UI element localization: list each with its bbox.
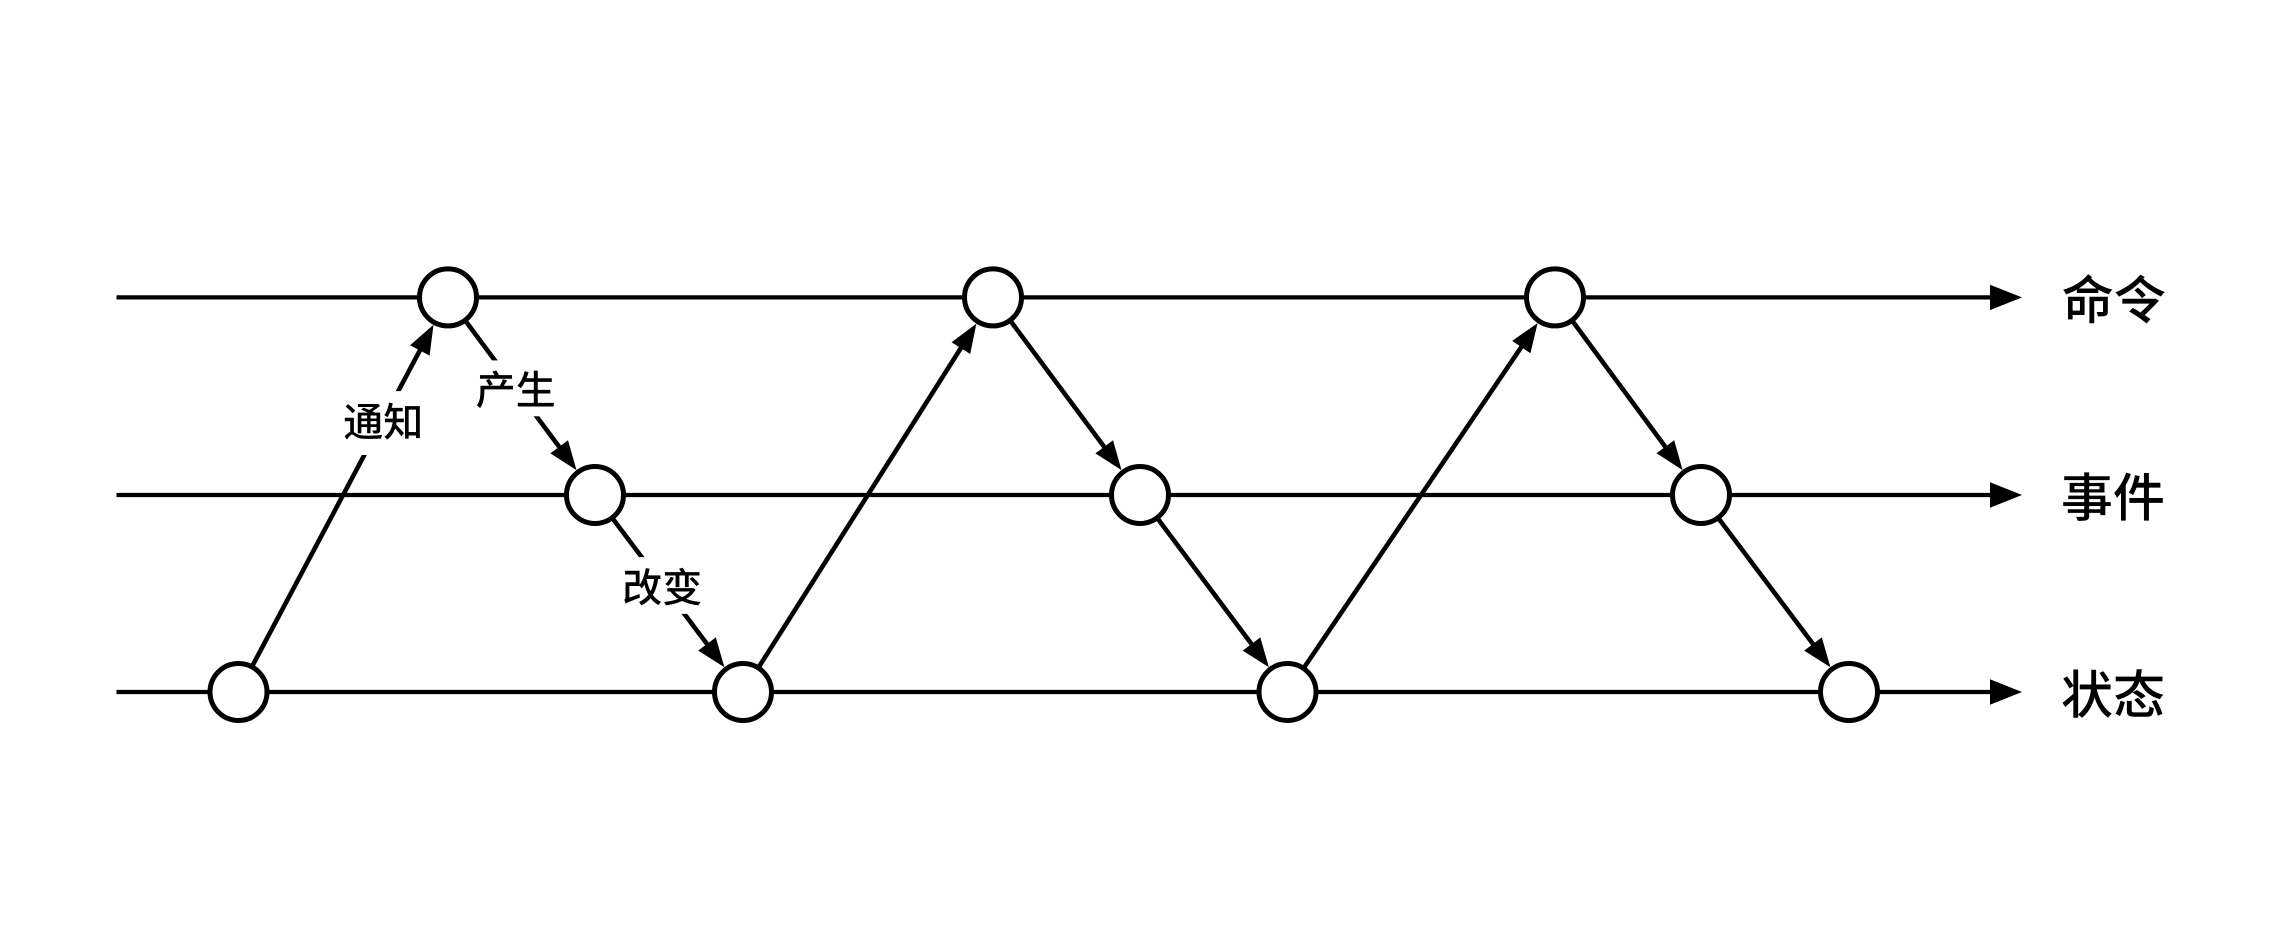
- node event E1: [567, 467, 624, 524]
- wire 改变 arrow E1-S2: [595, 495, 709, 646]
- node command C2: [965, 269, 1022, 326]
- node event E3: [1673, 467, 1730, 524]
- wire arrow S3-C3: [1288, 345, 1524, 692]
- arrowhead 通知 arrow S1-C1: [410, 325, 433, 356]
- arrowhead timeline 状态: [1990, 679, 2022, 704]
- arrowhead arrow S2-C2: [952, 324, 977, 354]
- wire 通知 arrow S1-C1: [239, 348, 422, 692]
- wire arrow C3-E3: [1555, 297, 1667, 449]
- arrowhead arrow E2-S3: [1243, 637, 1269, 667]
- wire arrow C2-E2: [993, 297, 1106, 449]
- node command C1: [420, 269, 477, 326]
- arrowhead arrow S3-C3: [1512, 323, 1537, 353]
- label 通知: [337, 391, 428, 455]
- node state S2: [715, 664, 772, 721]
- node event E2: [1112, 467, 1169, 524]
- arrowhead arrow C2-E2: [1095, 440, 1121, 470]
- label timeline 命令: [2063, 274, 2164, 323]
- label 产生: [470, 360, 560, 416]
- node command C3: [1527, 269, 1584, 326]
- node state S1: [210, 664, 267, 721]
- wire 产生 arrow C1-E1: [448, 297, 561, 449]
- arrowhead timeline 命令: [1990, 285, 2022, 310]
- label 改变: [616, 557, 710, 614]
- arrowhead timeline 事件: [1990, 482, 2022, 507]
- timeline 命令 line: [117, 295, 1993, 299]
- node state S4: [1821, 664, 1878, 721]
- timeline 状态 line: [117, 690, 1993, 694]
- arrowhead 产生 arrow C1-E1: [550, 440, 576, 470]
- node state S3: [1259, 664, 1316, 721]
- arrowhead arrow C3-E3: [1657, 440, 1683, 470]
- label timeline 事件: [2063, 472, 2163, 520]
- wire arrow E2-S3: [1140, 495, 1253, 646]
- arrowhead arrow E3-S4: [1804, 637, 1830, 667]
- arrowhead 改变 arrow E1-S2: [698, 637, 724, 667]
- label timeline 状态: [2063, 669, 2164, 718]
- wire arrow S2-C2: [743, 346, 963, 693]
- wire arrow E3-S4: [1701, 495, 1815, 646]
- timeline 事件 line: [117, 493, 1993, 497]
